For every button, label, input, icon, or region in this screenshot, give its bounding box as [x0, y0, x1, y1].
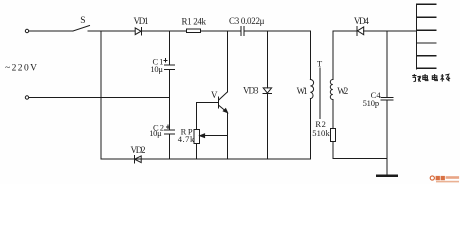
- wire (C1/C2 branch upper): [169, 31, 171, 65]
- glyph ji: [441, 74, 451, 82]
- ground: [377, 175, 397, 177]
- svg-text:510k: 510k: [312, 128, 330, 138]
- diode VD2: [134, 155, 141, 163]
- svg-text:10μ: 10μ: [149, 128, 162, 138]
- svg-text:V: V: [211, 90, 218, 100]
- svg-text:T: T: [317, 59, 323, 69]
- transformer T primary W1: [310, 31, 313, 159]
- wire: [141, 30, 186, 32]
- discharge electrode comb: [417, 4, 437, 69]
- terminal top (AC line): [25, 29, 28, 32]
- glyph fang: [412, 74, 421, 82]
- svg-text:VD4: VD4: [354, 16, 370, 26]
- diode VD4: [357, 26, 364, 35]
- wire (RP bottom): [196, 144, 198, 160]
- wire: [169, 70, 171, 131]
- wire: [29, 30, 73, 32]
- glyph dian: [432, 74, 437, 81]
- potentiometer RP: [194, 130, 228, 144]
- svg-text:10μ: 10μ: [150, 64, 163, 74]
- svg-text:VD3: VD3: [243, 85, 259, 95]
- svg-text:W1: W1: [297, 86, 308, 96]
- wire: [333, 142, 387, 159]
- svg-text:~220V: ~220V: [5, 64, 37, 74]
- diode VD3: [263, 31, 271, 159]
- wire: [88, 30, 135, 32]
- wire: [29, 97, 170, 99]
- wire: [364, 30, 417, 32]
- transformer core: [319, 68, 321, 119]
- capacitor C2: [165, 125, 175, 134]
- wire: [244, 30, 310, 32]
- label discharge electrode (fang dian dian ji): [412, 74, 450, 82]
- switch S: [73, 26, 90, 32]
- svg-text:VD1: VD1: [134, 16, 149, 26]
- svg-text:W2: W2: [337, 86, 348, 96]
- svg-text:R1 24k: R1 24k: [182, 17, 207, 27]
- svg-text:4.7k: 4.7k: [178, 134, 195, 144]
- capacitor C3: [241, 26, 244, 35]
- wire: [201, 30, 241, 32]
- wire (emitter): [227, 113, 229, 159]
- transistor V: [219, 92, 228, 113]
- bottom rail: [101, 158, 310, 160]
- wire (drop to bottom rail): [100, 31, 102, 159]
- wire (top right): [333, 30, 357, 32]
- wire (base): [197, 102, 219, 129]
- resistor R1: [186, 29, 200, 33]
- glyph dian: [423, 74, 428, 81]
- wire (collector): [227, 31, 229, 92]
- wire: [169, 134, 171, 159]
- svg-text:VD2: VD2: [131, 145, 146, 155]
- resistor R2: [330, 128, 335, 141]
- terminal bottom (AC neutral): [25, 96, 28, 99]
- diode VD1: [135, 28, 141, 36]
- transformer secondary W2: [330, 31, 333, 128]
- svg-text:S: S: [80, 16, 85, 26]
- svg-text:510p: 510p: [363, 98, 380, 108]
- capacitor C4: [381, 31, 393, 175]
- capacitor C1: [164, 59, 175, 70]
- svg-text:C3 0.022μ: C3 0.022μ: [229, 16, 265, 26]
- watermark logo: [430, 176, 459, 183]
